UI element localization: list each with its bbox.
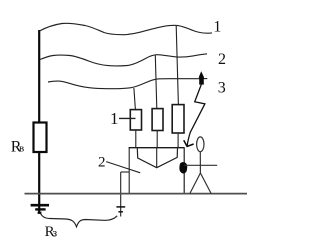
svg-text:2: 2 (218, 51, 226, 68)
svg-text:з: з (52, 225, 57, 239)
svg-text:2: 2 (98, 154, 106, 170)
svg-text:3: 3 (218, 79, 226, 96)
svg-text:1: 1 (110, 109, 119, 128)
svg-text:в: в (19, 143, 24, 155)
svg-text:1: 1 (213, 19, 221, 36)
